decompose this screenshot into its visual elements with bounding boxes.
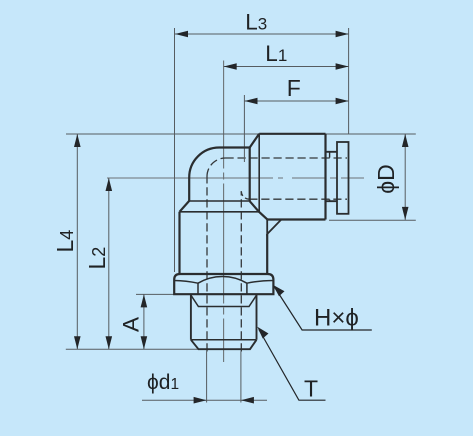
- elbow block right face: [249, 148, 251, 202]
- thread top chamfer: [191, 295, 257, 306]
- dimension L4 line: [76, 134, 78, 349]
- arrow phid1 left: [194, 397, 207, 404]
- extension line right end (x=348.6): [348, 28, 350, 134]
- cylinder bottom edge: [267, 218, 325, 220]
- hex chamfer side arcs: [174, 281, 273, 284]
- dimension L3 line: [175, 33, 349, 35]
- body outline: elbow corner arc: [189, 148, 250, 201]
- thread bottom chamfer edge: [191, 339, 257, 341]
- collet neck: [326, 152, 338, 201]
- wide section left face: [178, 212, 180, 274]
- arrow phiD bottom: [402, 207, 409, 220]
- dimension L2 line: [108, 178, 110, 349]
- arrow phiD top: [402, 134, 409, 147]
- thread outer: [191, 294, 257, 340]
- cylinder left end face: [258, 134, 260, 212]
- web triangle: [267, 220, 281, 235]
- centerline vertical (port axis / L1 extension): [223, 61, 225, 363]
- arrow L4 top: [74, 134, 81, 147]
- body chamfer block-to-cylinder: [250, 134, 260, 148]
- dimension A line: [143, 294, 145, 349]
- hex flats: [198, 283, 247, 294]
- centerline horizontal (tube axis / L2 extension): [107, 177, 364, 179]
- extension line A top (hex bottom): [136, 293, 174, 295]
- arrow L2 bottom: [106, 336, 113, 349]
- hidden hole vertical right: [240, 191, 242, 351]
- cylinder right face: [324, 134, 326, 220]
- arrow phid1 right: [241, 397, 254, 404]
- hex nut outline: [174, 274, 273, 294]
- hidden hole horizontal bottom: [249, 198, 347, 200]
- arrow A bottom: [141, 336, 148, 349]
- shoulder edge y=201: [189, 200, 250, 202]
- dimension F line: [245, 100, 349, 102]
- extension lines phi d1: [207, 352, 241, 403]
- extension line bottom (L4/L2/A, y=349.3): [66, 348, 199, 350]
- hidden hole horizontal top: [226, 157, 348, 159]
- cone bottom edge y=211.8: [180, 211, 259, 213]
- dimension phid1 line: [142, 399, 267, 401]
- arrow F right: [336, 98, 349, 105]
- svg-text:F: F: [287, 75, 301, 101]
- arrow A top: [141, 294, 148, 307]
- hex chamfer center arc: [198, 277, 247, 284]
- thread bottom chamfer diagonals and end face: [191, 340, 257, 349]
- arrow L1 right: [336, 63, 349, 70]
- arrow L2 top: [106, 178, 113, 191]
- svg-text:ϕD: ϕD: [373, 164, 399, 194]
- extension line top (L4 / phiD, y=134): [66, 133, 416, 135]
- flare right diagonal: [250, 201, 268, 219]
- svg-text:T: T: [304, 376, 318, 402]
- extension line F (x=244.4): [243, 95, 245, 162]
- leader Hxphi: [273, 285, 372, 330]
- arrow F left: [245, 98, 258, 105]
- flare left diagonal: [180, 201, 190, 212]
- collet sleeve inner edge stubs: [329, 152, 331, 201]
- svg-text:A: A: [119, 317, 144, 332]
- svg-text:H×ϕ: H×ϕ: [314, 305, 359, 332]
- arrow L4 bottom: [74, 336, 81, 349]
- collet flange: [337, 142, 349, 214]
- dimension L1 line: [224, 66, 349, 68]
- arrowheads: [74, 31, 409, 404]
- leader T: [257, 327, 325, 401]
- hidden outer bend arc: [207, 158, 226, 177]
- hidden hole vertical left: [206, 177, 208, 352]
- dimension phiD line: [404, 134, 406, 220]
- cylinder top edge: [259, 133, 325, 135]
- extension line phiD bottom: [329, 219, 416, 221]
- arrow L3 right: [336, 31, 349, 38]
- hidden inner bend arc: [241, 191, 249, 199]
- wide section right face: [266, 234, 268, 274]
- extension line L3 left (hex edge): [174, 28, 176, 272]
- arrow L3 left: [175, 31, 188, 38]
- arrow L1 left: [224, 63, 237, 70]
